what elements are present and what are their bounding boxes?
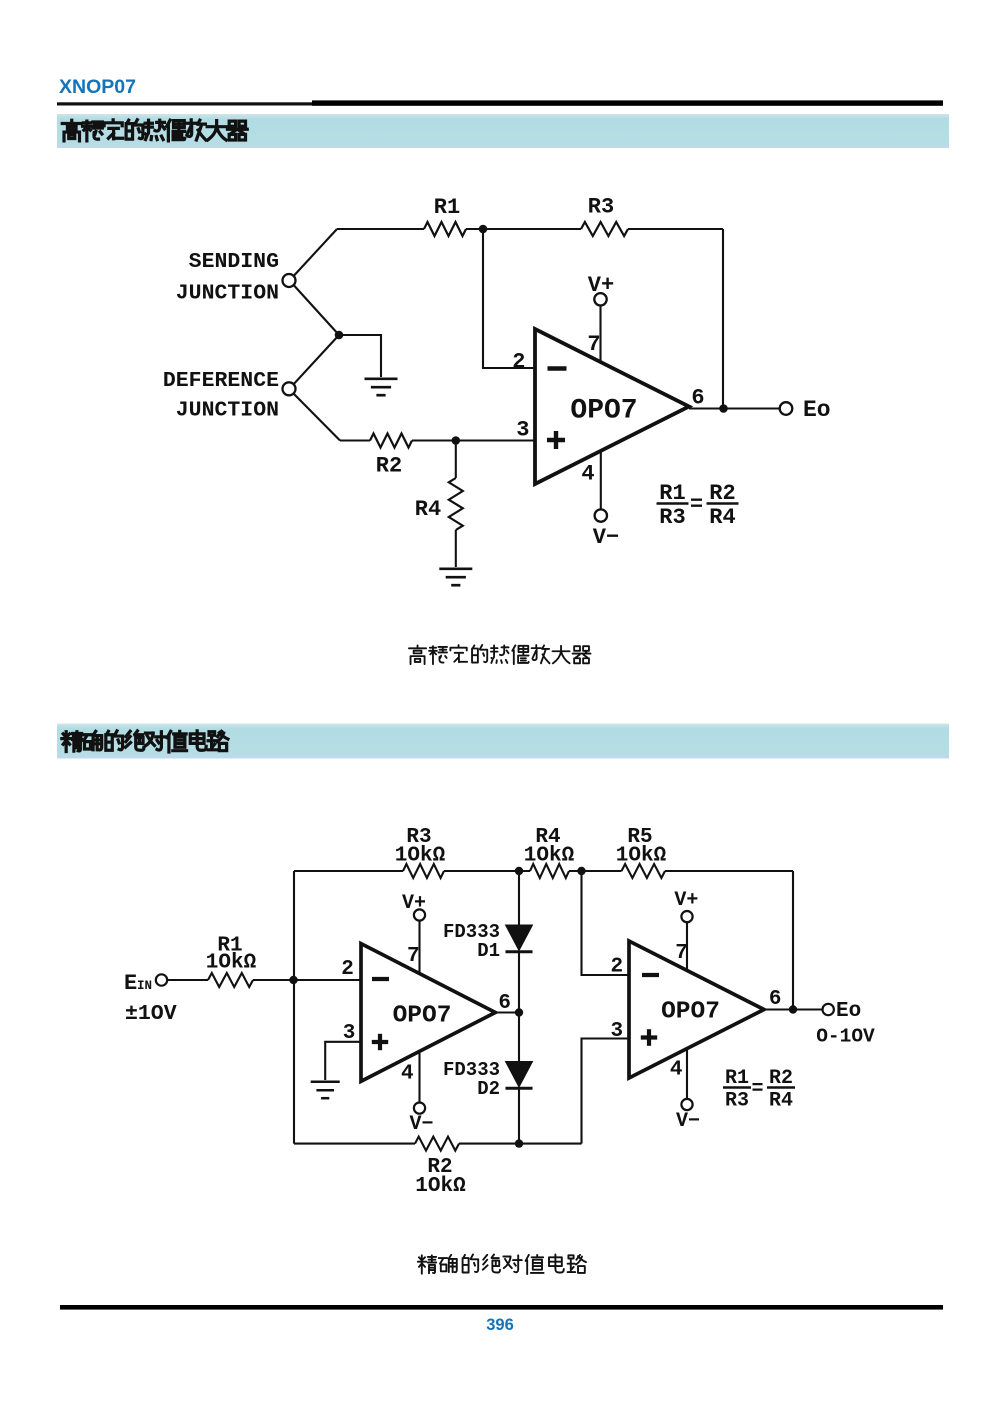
op-amp U1 inverting input minus sign <box>548 366 567 371</box>
svg-text:SENDING: SENDING <box>189 250 279 274</box>
svg-text:6: 6 <box>691 386 704 411</box>
op-amp U3 inverting minus sign <box>642 973 659 977</box>
section banner 2 background <box>57 724 949 759</box>
svg-text:R1: R1 <box>434 195 460 220</box>
svg-text:7: 7 <box>587 332 600 357</box>
svg-text:1OkΩ: 1OkΩ <box>415 1175 466 1198</box>
node junction D2 cathode with bottom wire <box>515 1139 523 1147</box>
svg-text:6: 6 <box>769 988 782 1011</box>
ground symbol (U2 non-inverting input) <box>311 1082 340 1098</box>
wire R2 to non-inverting input <box>412 439 535 441</box>
op-amp U1 OP07 triangle <box>535 329 689 484</box>
wire pin 7 to V+ <box>599 306 601 364</box>
wire D2 cathode to bottom node <box>518 1090 520 1144</box>
wire bottom corner up to pin 3 of U3 <box>582 1039 630 1144</box>
svg-text:V−: V− <box>593 525 619 550</box>
U2 V- supply terminal <box>414 1103 425 1114</box>
svg-text:3: 3 <box>516 418 529 443</box>
svg-text:396: 396 <box>486 1316 514 1334</box>
svg-text:R4: R4 <box>709 505 735 530</box>
wire diagonal deference down to R2 <box>294 394 340 441</box>
wire R2 to bottom right corner <box>459 1143 582 1145</box>
node junction of R1, R3 and inverting input <box>479 225 488 234</box>
header rule thin left segment <box>57 102 312 105</box>
svg-text:4: 4 <box>670 1059 683 1082</box>
V+ supply terminal <box>594 293 606 305</box>
svg-text:D1: D1 <box>477 940 500 962</box>
svg-text:2: 2 <box>341 958 354 981</box>
ground symbol (below R4) <box>439 569 472 585</box>
node junction of R2, R4 and non-inverting input <box>452 436 461 445</box>
op-amp U1 non-inverting input plus sign <box>547 431 565 449</box>
caption circuit 2 (Chinese) <box>418 1255 586 1275</box>
svg-text:OPO7: OPO7 <box>570 396 637 427</box>
svg-text:JUNCTION: JUNCTION <box>176 282 279 306</box>
terminal deference junction <box>283 382 296 395</box>
wire D1 anode from top node <box>518 871 520 925</box>
terminal EIN input <box>156 974 167 985</box>
svg-text:V−: V− <box>676 1110 700 1133</box>
svg-text:DEFERENCE: DEFERENCE <box>163 369 279 393</box>
wire U2 pin 3 to ground corner <box>325 1042 361 1080</box>
svg-text:V+: V+ <box>588 273 614 298</box>
resistor R5 (10k) <box>622 864 666 878</box>
svg-text:1OkΩ: 1OkΩ <box>206 952 257 975</box>
wire deference corner to R2 <box>340 439 370 441</box>
wire R3 to D1 node <box>444 870 530 872</box>
wire R4 to R5 <box>569 870 622 872</box>
wire feedback right vertical down to output node <box>722 229 724 409</box>
svg-text:1OkΩ: 1OkΩ <box>616 845 667 868</box>
wire inverting input branch <box>483 229 535 368</box>
svg-text:R4: R4 <box>415 497 441 522</box>
resistor R3 (10k) <box>403 864 444 878</box>
resistor R4 (10k) <box>530 864 569 878</box>
svg-text:=: = <box>690 493 703 518</box>
svg-text:R2: R2 <box>709 481 735 506</box>
svg-text:JUNCTION: JUNCTION <box>176 399 279 423</box>
wire top node down to pin 2 of U3 <box>582 871 630 975</box>
wire between R1 and R3 <box>466 228 581 230</box>
wire diagonal sending down to common node <box>294 285 339 335</box>
wire common node to ground stub <box>339 335 381 377</box>
diode D1 FD333 <box>506 925 533 951</box>
wire diagonal sending to top corner <box>294 229 337 276</box>
resistor R4 <box>449 478 463 530</box>
svg-text:R2: R2 <box>376 454 402 479</box>
svg-text:±1OV: ±1OV <box>125 1002 177 1026</box>
U3 V- supply terminal <box>681 1099 692 1110</box>
terminal output Eo <box>823 1004 834 1015</box>
wire EIN to R1 <box>167 979 208 981</box>
svg-text:1OkΩ: 1OkΩ <box>524 845 575 868</box>
resistor R2 <box>370 434 412 448</box>
wire U2 pin 7 to V+ <box>418 921 420 974</box>
op-amp U2 non-inverting plus sign <box>372 1034 388 1050</box>
wire node to R4 <box>455 441 457 479</box>
svg-text:IN: IN <box>137 979 152 993</box>
node common junction of thermocouple <box>335 331 344 340</box>
svg-text:Eo: Eo <box>803 397 831 423</box>
svg-text:4: 4 <box>581 462 594 487</box>
ground symbol (thermocouple common) <box>365 379 398 395</box>
wire U2 pin 4 to V- <box>418 1051 420 1102</box>
svg-text:2: 2 <box>512 350 525 375</box>
op-amp U3 non-inverting plus sign <box>641 1029 657 1046</box>
V- supply terminal <box>595 509 607 521</box>
svg-text:7: 7 <box>407 945 420 968</box>
svg-text:Eo: Eo <box>836 1000 861 1023</box>
node junction R4/R5/pin2 branch <box>577 867 585 875</box>
svg-text:V+: V+ <box>402 892 426 915</box>
wire R5 to feedback right corner <box>665 870 793 872</box>
terminal sending junction <box>283 274 296 287</box>
resistor R2 (10k) <box>415 1137 459 1151</box>
node junction R3/R4/D1 <box>515 867 523 875</box>
svg-text:1OkΩ: 1OkΩ <box>395 845 446 868</box>
svg-text:V+: V+ <box>674 889 698 912</box>
section banner 1 background <box>57 114 949 148</box>
resistor R1 (10k) <box>208 973 253 987</box>
svg-text:O-1OV: O-1OV <box>816 1026 875 1048</box>
U3 V+ supply terminal <box>681 911 692 922</box>
svg-text:7: 7 <box>675 942 688 965</box>
header rule thick right segment <box>312 100 943 105</box>
footer rule <box>60 1305 943 1310</box>
svg-text:OPO7: OPO7 <box>393 1003 452 1030</box>
wire bottom from left corner to R2 <box>294 1143 415 1145</box>
terminal output Eo <box>780 402 793 415</box>
svg-text:OPO7: OPO7 <box>661 999 720 1026</box>
wire D2 anode from output node <box>518 1013 520 1062</box>
node output junction with feedback <box>719 404 728 413</box>
wire U2 output to diode node <box>495 1011 519 1013</box>
node U2 output / D1 / D2 junction <box>515 1008 523 1016</box>
section banner 2 title text (Chinese) <box>62 731 228 752</box>
wire top horizontal left (sending junction to R1) <box>337 228 424 230</box>
wire R1 to inverting input pin 2 <box>253 979 361 981</box>
wire D1 cathode to output node <box>518 953 520 1013</box>
U2 V+ supply terminal <box>414 909 425 920</box>
node junction R1 input with feedback column <box>289 976 297 984</box>
svg-text:R4: R4 <box>769 1090 793 1113</box>
svg-text:R3: R3 <box>659 505 685 530</box>
op-amp U2 inverting minus sign <box>372 977 389 981</box>
svg-text:=: = <box>751 1078 763 1101</box>
wire left feedback vertical (top wire to bottom wire) <box>293 871 295 1144</box>
wire U3 pin 4 to V- <box>686 1049 688 1099</box>
wire U3 pin 7 to V+ <box>686 922 688 970</box>
svg-text:D2: D2 <box>477 1078 500 1100</box>
svg-text:R3: R3 <box>588 195 614 220</box>
wire U3 output pin 6 <box>764 1008 823 1010</box>
svg-text:2: 2 <box>610 956 623 979</box>
wire pin 4 to V- <box>600 452 602 510</box>
svg-text:R3: R3 <box>725 1090 749 1113</box>
wire right feedback vertical to output <box>792 871 794 1010</box>
node U3 output junction with feedback <box>789 1005 797 1013</box>
wire top left corner to R3 <box>294 870 403 872</box>
svg-text:E: E <box>124 971 137 996</box>
caption circuit 1 (Chinese) <box>409 645 591 664</box>
svg-text:V−: V− <box>409 1113 433 1136</box>
svg-text:4: 4 <box>401 1063 414 1086</box>
wire diagonal deference up to common node <box>294 335 339 384</box>
svg-text:R1: R1 <box>659 481 685 506</box>
resistor R1 <box>424 222 466 236</box>
wire from R3 to feedback corner <box>628 228 723 230</box>
svg-text:XNOP07: XNOP07 <box>59 76 136 98</box>
resistor R3 <box>581 222 628 236</box>
wire R4 to ground <box>455 530 457 567</box>
svg-text:3: 3 <box>610 1020 623 1043</box>
op-amp U2 OP07 triangle <box>361 944 495 1082</box>
diode D2 FD333 <box>506 1062 533 1088</box>
section banner 1 title text (Chinese) <box>62 120 247 141</box>
wire output pin 6 <box>689 407 780 409</box>
op-amp U3 OP07 triangle <box>629 941 764 1078</box>
